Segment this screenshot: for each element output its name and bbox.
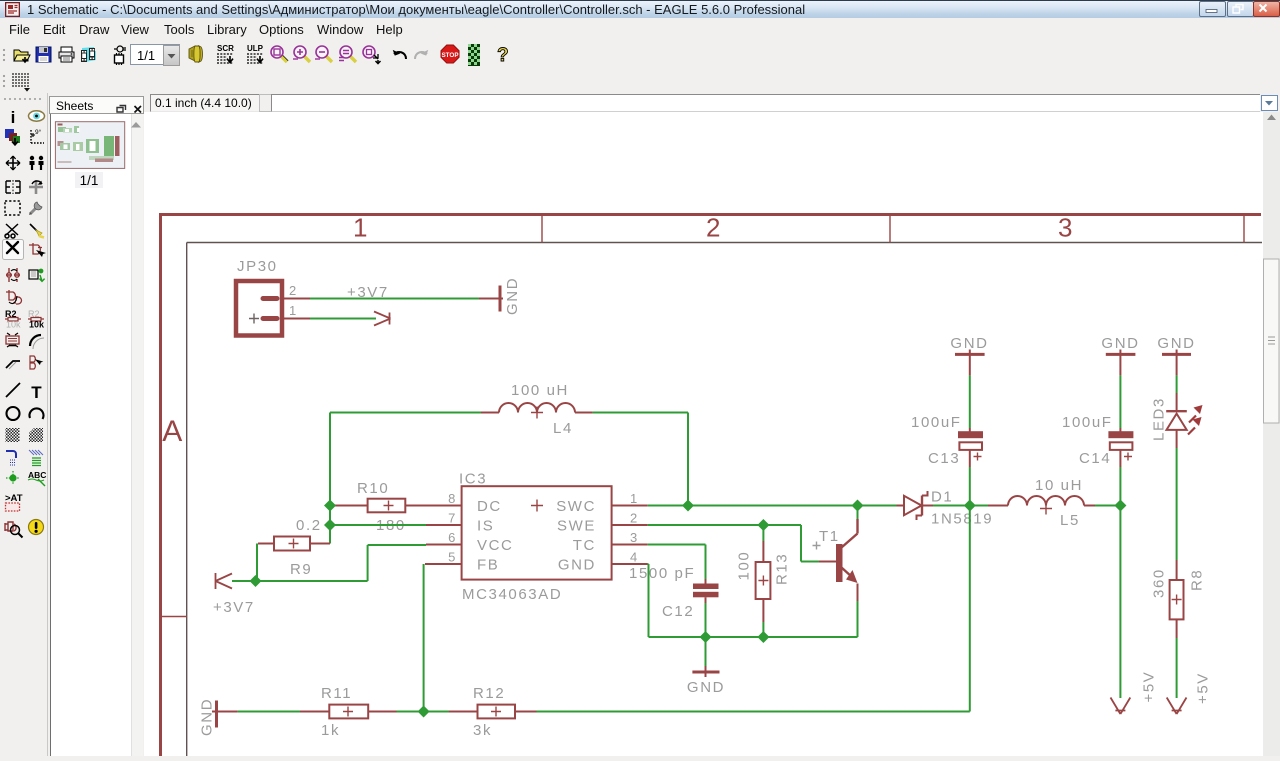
svg-text:GND: GND	[504, 277, 521, 315]
svg-text:2: 2	[706, 213, 722, 243]
svg-text:7: 7	[448, 511, 457, 526]
menu bar	[0, 18, 1280, 42]
svg-text:100uF: 100uF	[1062, 414, 1113, 431]
wire L4 left vertical down	[329, 413, 331, 544]
svg-text:3k: 3k	[473, 722, 492, 739]
svg-text:FB: FB	[477, 557, 499, 574]
svg-text:+3V7: +3V7	[213, 599, 255, 616]
svg-text:1N5819: 1N5819	[931, 511, 993, 528]
capacitor C12	[705, 579, 707, 584]
svg-text:+5V: +5V	[1195, 672, 1212, 704]
svg-text:3: 3	[630, 530, 639, 545]
IC3 origin cross	[531, 500, 543, 512]
svg-text:100: 100	[736, 551, 753, 581]
svg-text:SWE: SWE	[557, 518, 596, 535]
svg-text:GND: GND	[1157, 335, 1195, 352]
junction node R13/rail	[757, 631, 769, 643]
wire pin3 net to C12	[648, 545, 706, 580]
svg-text:JP30: JP30	[237, 258, 278, 275]
junction node pin2/R13	[757, 519, 769, 531]
svg-text:DC: DC	[477, 498, 502, 515]
transistor T1	[836, 544, 843, 582]
resistor R13	[762, 525, 764, 541]
wire FB net vertical	[423, 564, 425, 712]
ground symbol bar above LED3	[1162, 353, 1191, 356]
svg-text:3: 3	[1058, 213, 1074, 243]
svg-text:LED3: LED3	[1151, 397, 1168, 441]
resistor R9	[274, 537, 310, 551]
svg-text:GND: GND	[950, 335, 988, 352]
wire pin2 net to T1 base	[648, 525, 819, 562]
resistor R12	[449, 711, 478, 713]
LED3 emission arrows	[1189, 416, 1196, 423]
T1 collector	[857, 506, 859, 520]
svg-text:10 uH: 10 uH	[1035, 477, 1083, 494]
wire R9 left down to +3V7 rail	[256, 544, 258, 582]
svg-text:C12: C12	[662, 603, 694, 620]
resistor R11	[300, 711, 329, 713]
svg-text:IS: IS	[477, 518, 494, 535]
wire net GND from JP30 pin 2	[310, 298, 479, 300]
junction node L5/C14	[1114, 500, 1126, 512]
svg-text:T1: T1	[819, 528, 840, 545]
svg-text:1: 1	[353, 213, 369, 243]
svg-text:1k: 1k	[321, 722, 340, 739]
JP30 pin 2 lead	[284, 298, 310, 300]
command band	[0, 93, 1280, 112]
svg-text:4: 4	[630, 550, 639, 565]
svg-text:L5: L5	[1060, 512, 1080, 529]
svg-text:8: 8	[448, 491, 457, 506]
inductor L4	[499, 403, 575, 412]
svg-text:+3V7: +3V7	[347, 284, 389, 301]
svg-text:R9: R9	[290, 561, 312, 578]
frame inner border	[187, 243, 1262, 757]
svg-text:360: 360	[1151, 568, 1168, 598]
wire L4 right to node	[593, 413, 688, 506]
supply symbol +3V7 arrow right	[374, 312, 391, 326]
ground symbol bar below C12	[692, 671, 719, 674]
title bar	[0, 0, 1280, 19]
svg-text:R11: R11	[321, 685, 352, 702]
resistor R10	[368, 499, 406, 513]
svg-text:MC34063AD: MC34063AD	[462, 586, 562, 603]
svg-text:R13: R13	[774, 553, 791, 585]
IC3 MC34063AD body	[462, 486, 612, 579]
ground symbol pin below C12	[705, 666, 707, 677]
supply symbol +5V arrow below C14	[1111, 698, 1131, 715]
svg-text:GND: GND	[558, 557, 596, 574]
svg-text:1: 1	[630, 491, 639, 506]
ground symbol bar above C14	[1106, 353, 1136, 356]
junction node C12/rail	[700, 631, 712, 643]
ground symbol bar at JP30	[499, 286, 502, 312]
JP30 polarity +	[249, 314, 259, 324]
svg-text:C13: C13	[928, 450, 960, 467]
svg-text:0.2: 0.2	[296, 517, 322, 534]
wire C12 bottom	[705, 603, 707, 666]
resistor R8	[1176, 560, 1178, 580]
junction node pin1/L4	[682, 500, 694, 512]
svg-text:6: 6	[448, 530, 457, 545]
IC3 pin 5 lead	[425, 563, 462, 565]
junction node D1/C13/L5	[964, 500, 976, 512]
svg-text:2: 2	[289, 283, 298, 298]
svg-text:IC3: IC3	[459, 471, 487, 488]
svg-text:D1: D1	[931, 489, 953, 506]
canvas & scrollbar	[144, 112, 1263, 756]
diode D1 1N5819	[897, 505, 905, 507]
ground symbol pin at JP30	[479, 298, 503, 300]
T1 emitter with arrow	[842, 568, 853, 578]
junction node L4/R10	[324, 500, 336, 512]
svg-text:100uF: 100uF	[911, 414, 962, 431]
L4 origin cross	[531, 407, 543, 419]
supply symbol +3V7 arrow left bottom	[216, 573, 233, 589]
junction node FB bottom rail	[418, 706, 430, 718]
svg-text:100 uH: 100 uH	[511, 382, 569, 399]
svg-text:C14: C14	[1079, 450, 1111, 467]
ground symbol bar above C13	[955, 353, 985, 356]
wire L4 left	[330, 412, 481, 414]
junction node L4/pin7	[324, 519, 336, 531]
svg-text:L4: L4	[553, 420, 573, 437]
junction node +3V7 rail	[250, 575, 262, 587]
frame outer border	[159, 213, 1261, 756]
wire emitter ground rail	[649, 636, 858, 638]
supply symbol +5V arrow below R8	[1167, 698, 1187, 715]
wire +3V7 rail to VCC	[232, 545, 426, 581]
svg-text:SWC: SWC	[556, 498, 596, 515]
wire pin1 net horizontal	[648, 505, 897, 507]
svg-text:1500 pF: 1500 pF	[629, 565, 695, 582]
junction node pin1/T1	[852, 500, 864, 512]
svg-text:GND: GND	[687, 679, 725, 696]
svg-text:R10: R10	[357, 480, 389, 497]
IC3 right pin leads 1-4	[612, 506, 648, 565]
connector JP30	[236, 281, 282, 336]
svg-text:5: 5	[448, 550, 457, 565]
wire IC3 pin7 net	[330, 524, 426, 526]
toolbars	[0, 41, 1280, 70]
svg-text:2: 2	[630, 511, 639, 526]
wire bottom rail	[238, 711, 970, 713]
wire net +3V7 from JP30 pin 1	[310, 318, 376, 320]
svg-text:R8: R8	[1189, 569, 1206, 591]
svg-text:GND: GND	[1101, 335, 1139, 352]
svg-text:1: 1	[289, 303, 298, 318]
sheets panel	[49, 96, 144, 114]
T1 base lead	[819, 561, 836, 563]
svg-text:R12: R12	[473, 685, 505, 702]
svg-text:VCC: VCC	[477, 537, 513, 554]
JP30 pin 1 lead	[284, 318, 310, 320]
svg-text:+5V: +5V	[1141, 671, 1158, 703]
wire C13 down to bottom rail	[969, 467, 971, 712]
svg-text:TC: TC	[573, 537, 596, 554]
inductor L5	[970, 505, 988, 507]
svg-text:GND: GND	[199, 698, 216, 736]
frame column ticks	[161, 216, 1244, 617]
wire pin4 net down	[647, 564, 650, 637]
left tool palette	[0, 93, 48, 756]
svg-text:A: A	[162, 415, 184, 448]
